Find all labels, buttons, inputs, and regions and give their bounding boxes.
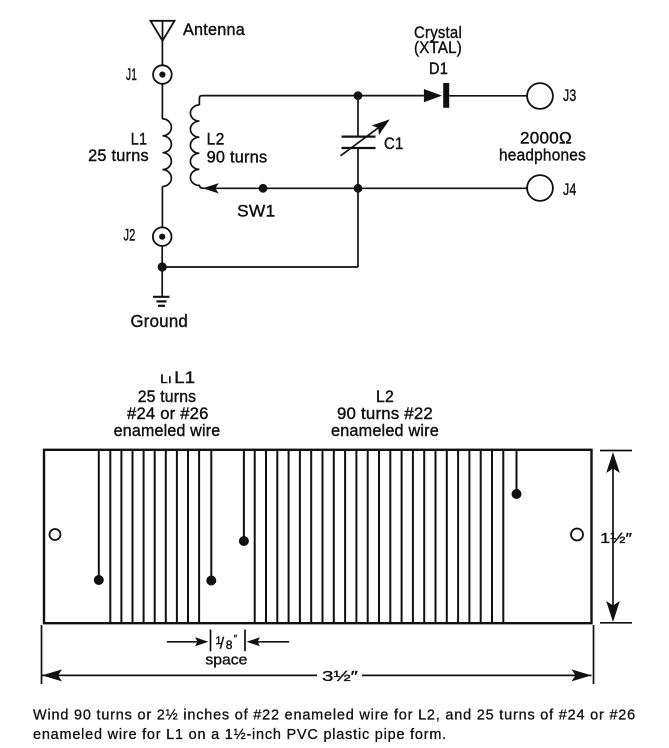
svg-text:3½″: 3½″ xyxy=(322,668,359,685)
L2 winding lead 2 xyxy=(512,450,522,499)
antenna xyxy=(151,21,175,41)
svg-text:J4: J4 xyxy=(563,181,577,199)
svg-text:90 turns #22: 90 turns #22 xyxy=(337,405,433,423)
inductor L2 xyxy=(190,105,203,188)
svg-text:25 turns: 25 turns xyxy=(138,388,197,406)
dimension 3-1/2 inch arrow left xyxy=(42,669,62,681)
wire ground stem xyxy=(161,267,163,296)
svg-text:1½″: 1½″ xyxy=(600,530,633,547)
dimension 1-1/2 inch arrow down xyxy=(606,601,620,622)
wire D1 to J3 xyxy=(449,95,527,97)
jack J1 xyxy=(153,65,172,84)
svg-text:enameled wire: enameled wire xyxy=(114,422,221,440)
jack J3 xyxy=(527,83,553,109)
extension line left xyxy=(41,625,43,684)
wire antenna to J1 xyxy=(161,41,163,66)
svg-text:LıL1: LıL1 xyxy=(160,369,195,387)
wire L1 to J2 xyxy=(161,187,163,228)
svg-text:enameled wire: enameled wire xyxy=(331,422,439,440)
svg-text:/: / xyxy=(220,636,225,653)
dimension 1-1/2 inch line xyxy=(612,455,614,619)
svg-text:L2: L2 xyxy=(207,131,225,149)
dimension 3-1/2 inch arrow right xyxy=(572,669,592,681)
wire C1 to middle node xyxy=(357,148,359,188)
wire J2 to ground node xyxy=(161,246,163,267)
capacitor C1 plates xyxy=(342,137,376,148)
svg-text:enameled wire for L1 on a 1½-i: enameled wire for L1 on a 1½-inch PVC pl… xyxy=(33,727,447,743)
dimension 1/8 tick left xyxy=(210,630,212,652)
svg-text:#24 or #26: #24 or #26 xyxy=(127,405,209,423)
L1 winding lead 2 xyxy=(206,450,216,586)
svg-text:SW1: SW1 xyxy=(237,203,276,221)
inductor L1 xyxy=(162,119,171,187)
diode D1 triangle xyxy=(424,89,442,102)
wire top to C1 xyxy=(357,96,359,137)
svg-text:Ground: Ground xyxy=(131,311,189,331)
extension line right xyxy=(593,625,595,684)
ground xyxy=(153,297,170,306)
dimension 1/8 space left arrow xyxy=(167,637,209,646)
mounting hole left xyxy=(50,529,61,540)
svg-text:2000Ω: 2000Ω xyxy=(520,130,572,148)
svg-text:L1: L1 xyxy=(131,131,148,149)
wire J1 to L1 xyxy=(161,84,163,119)
label 1/8 inch xyxy=(215,634,237,653)
jack J2 xyxy=(153,227,172,246)
svg-text:25 turns: 25 turns xyxy=(88,147,149,165)
wire to J4 xyxy=(358,187,527,189)
dimension 3-1/2 inch line right xyxy=(362,674,592,676)
svg-text:C1: C1 xyxy=(384,135,404,153)
wire middle node down xyxy=(357,188,359,267)
node ground junction xyxy=(158,262,167,271)
svg-text:headphones: headphones xyxy=(499,147,586,165)
L2 winding lead 1 xyxy=(239,450,249,546)
wire L2 top to node xyxy=(199,96,358,105)
svg-text:Wind 90 turns or 2½ inches of: Wind 90 turns or 2½ inches of #22 enamel… xyxy=(33,708,636,724)
L2 windings xyxy=(255,450,504,623)
L1 winding lead 1 xyxy=(94,450,104,585)
svg-text:space: space xyxy=(205,652,247,669)
svg-text:L2: L2 xyxy=(376,388,394,406)
diode D1 cathode bar xyxy=(443,83,449,108)
svg-text:J2: J2 xyxy=(124,227,136,245)
dimension 1-1/2 inch arrow up xyxy=(606,452,620,473)
wire node to diode xyxy=(358,95,424,97)
svg-text:D1: D1 xyxy=(429,60,448,78)
dimension 1/8 tick right xyxy=(244,630,246,652)
svg-text:(XTAL): (XTAL) xyxy=(414,39,462,57)
switch SW1 wire xyxy=(204,187,359,189)
dimension 1/8 right arrow xyxy=(247,637,290,646)
mounting hole right xyxy=(571,529,583,541)
svg-text:Antenna: Antenna xyxy=(183,21,246,39)
dimension 3-1/2 inch line left xyxy=(42,674,317,676)
coil form PVC pipe xyxy=(44,450,592,623)
dimension 1-1/2 inch ticks xyxy=(600,451,632,623)
svg-text:J3: J3 xyxy=(563,87,577,105)
svg-text:8: 8 xyxy=(226,638,233,652)
node SW1 tap xyxy=(259,184,268,193)
wire bottom horizontal xyxy=(162,266,358,268)
capacitor C1 arrow xyxy=(341,119,390,156)
svg-text:90 turns: 90 turns xyxy=(207,149,268,167)
svg-text:J1: J1 xyxy=(126,66,137,84)
node top junction xyxy=(354,91,363,100)
jack J4 xyxy=(527,175,553,201)
L1 windings xyxy=(110,450,199,623)
node middle junction xyxy=(354,184,363,193)
switch SW1 arrowhead xyxy=(203,183,219,193)
